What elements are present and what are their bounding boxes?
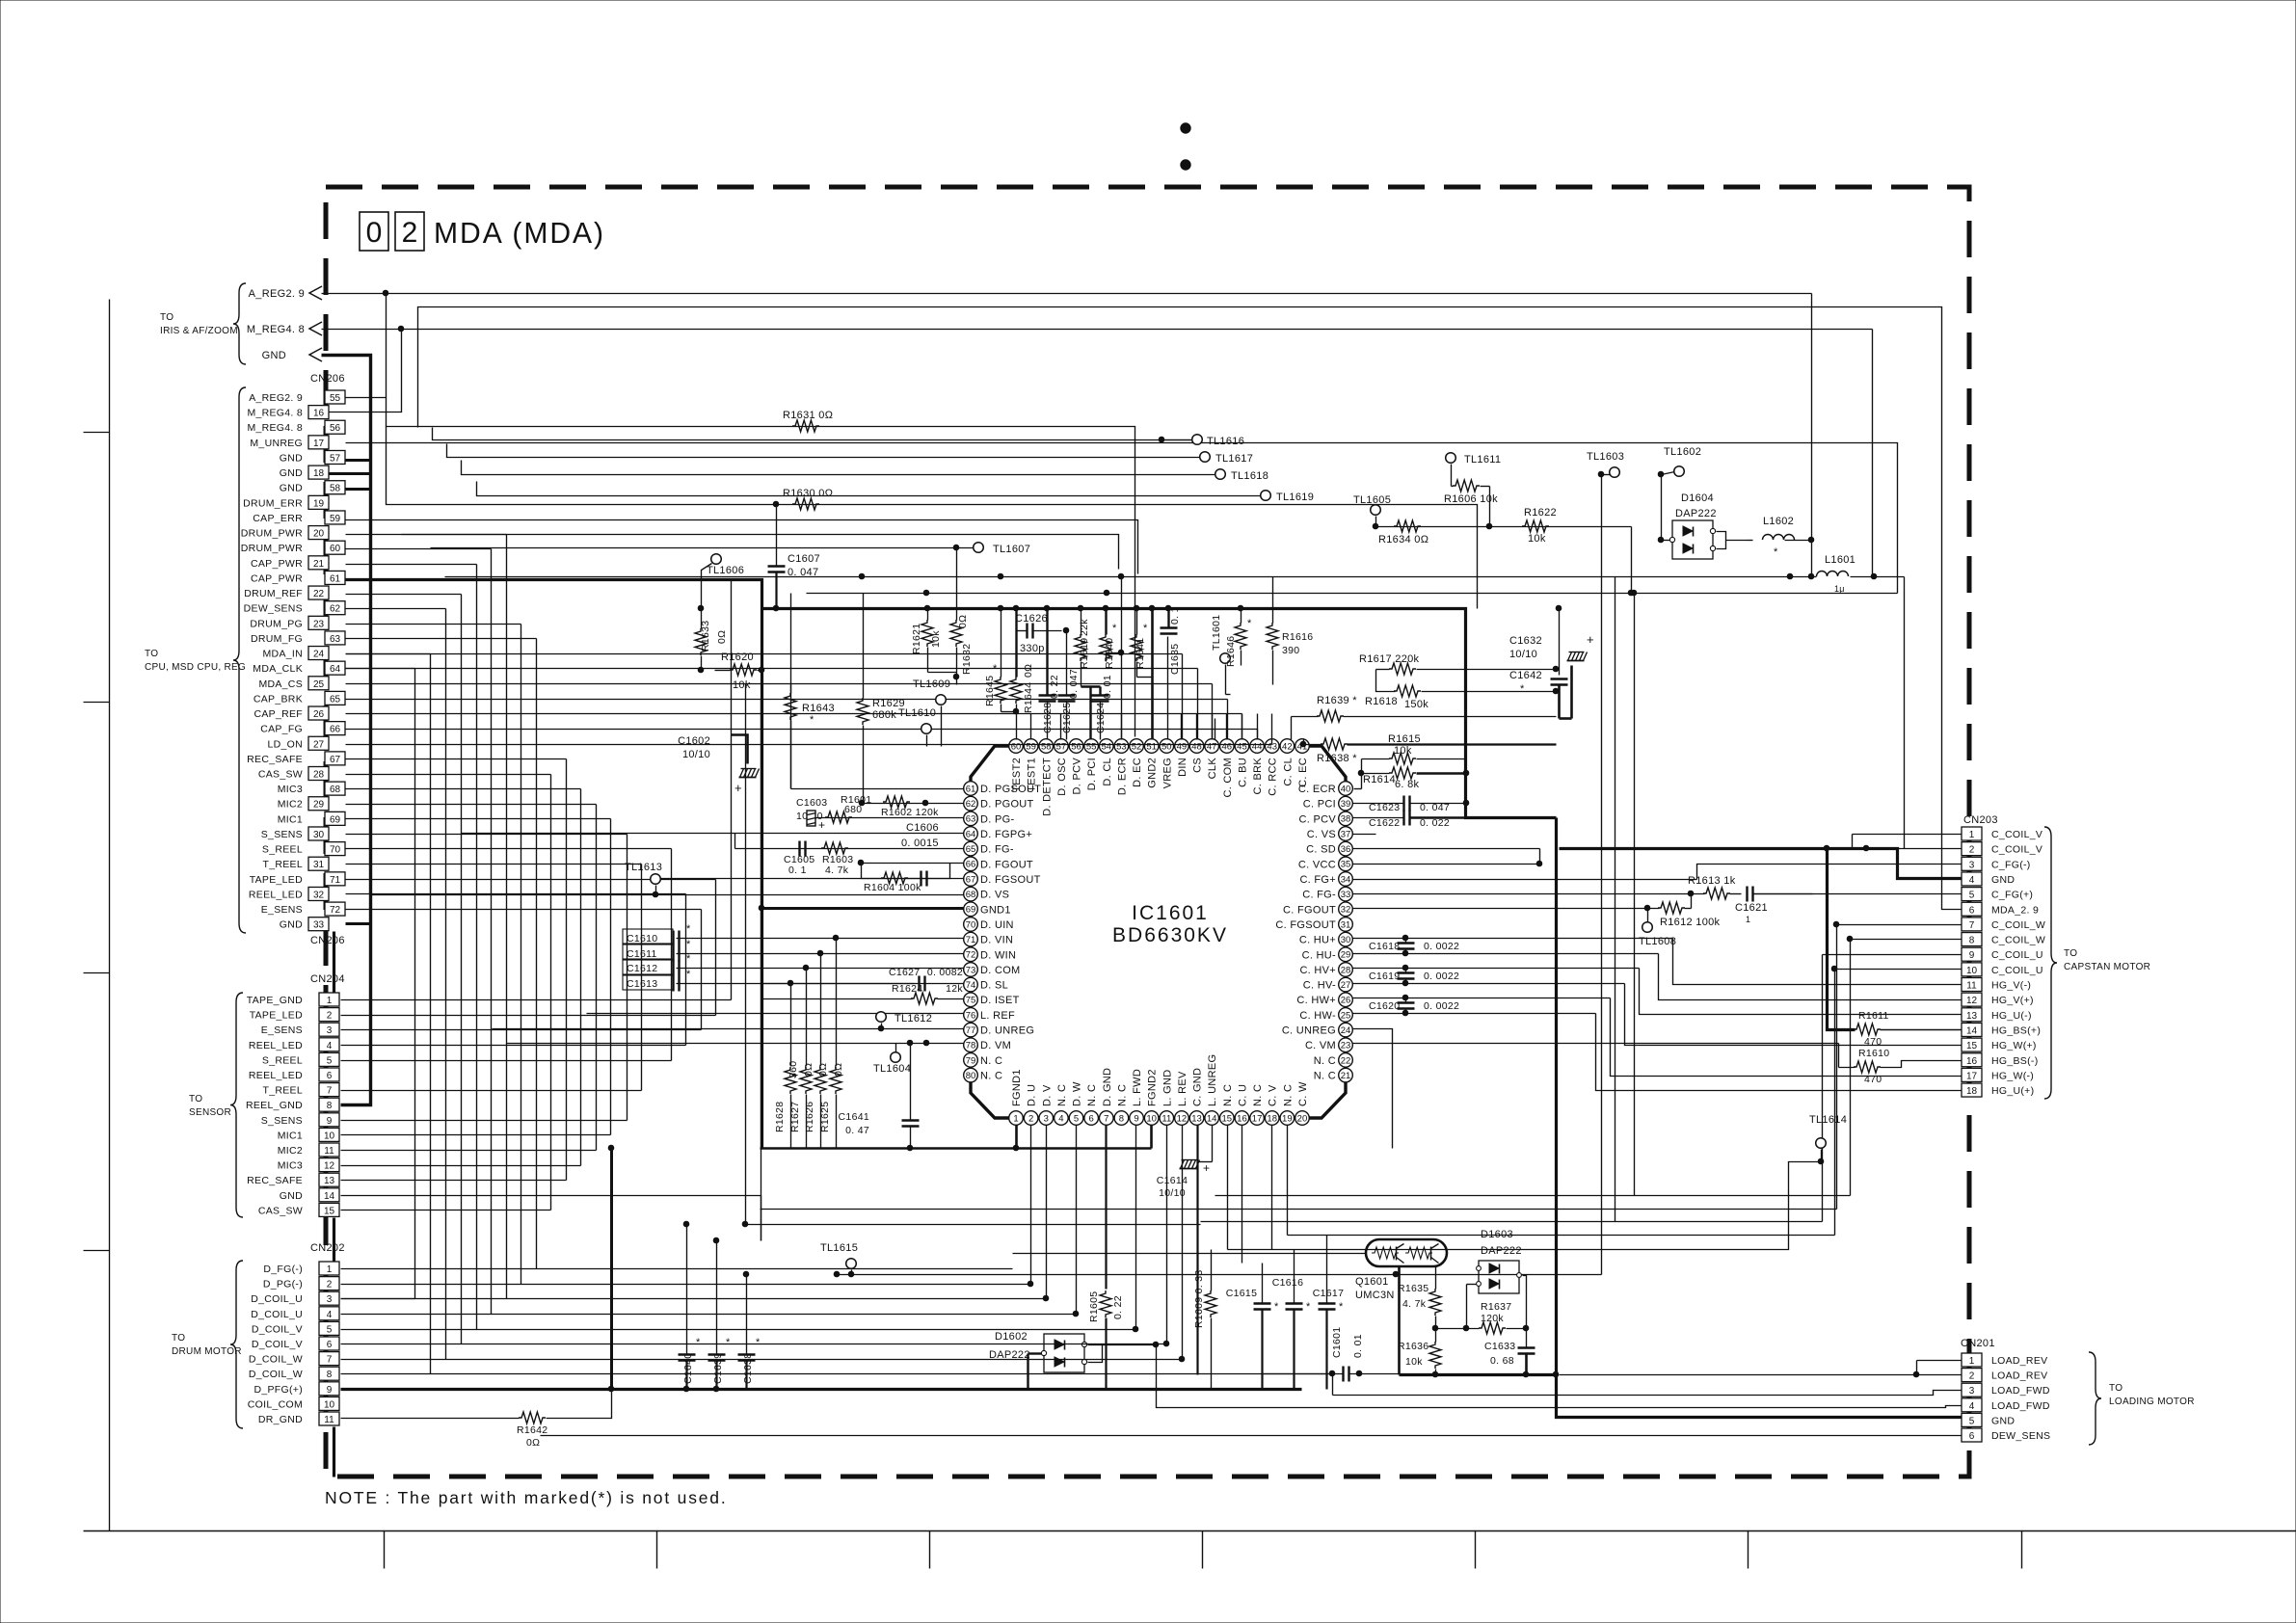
svg-text:R1604 100k: R1604 100k: [864, 882, 921, 893]
resistor R1616: [1267, 577, 1313, 685]
wire CN201 pin2 thin: [1560, 1374, 1962, 1376]
svg-text:D. PGOUT: D. PGOUT: [980, 799, 1034, 811]
svg-text:C1633: C1633: [1484, 1341, 1515, 1352]
wire rail R1630 net: [387, 427, 1478, 609]
svg-text:27: 27: [313, 739, 325, 750]
svg-text:11: 11: [324, 1415, 334, 1425]
svg-text:C. HV+: C. HV+: [1299, 965, 1336, 976]
svg-text:S_REEL: S_REEL: [262, 1054, 303, 1066]
svg-text:CN203: CN203: [1963, 814, 1998, 826]
svg-text:C1639: C1639: [712, 1353, 724, 1384]
svg-text:TL1613: TL1613: [625, 862, 662, 873]
wire R1625-28 verticals to FGND bus: [791, 939, 837, 1149]
svg-text:C1624: C1624: [1095, 703, 1107, 733]
svg-text:11: 11: [1966, 981, 1977, 992]
svg-text:0. 0022: 0. 0022: [1424, 941, 1459, 952]
capacitor C1614 with ground: [1157, 1157, 1213, 1200]
svg-text:LOAD_REV: LOAD_REV: [1991, 1370, 2047, 1382]
wire connector spines thick: [333, 932, 335, 1477]
test point TL1613: [625, 862, 662, 895]
svg-text:DRUM_PWR: DRUM_PWR: [241, 543, 303, 554]
connector CN201: [1961, 1338, 2050, 1442]
svg-text:4: 4: [1058, 1113, 1063, 1124]
svg-text:8: 8: [1119, 1113, 1124, 1124]
svg-text:10/10: 10/10: [1159, 1187, 1186, 1199]
svg-text:CAP_BRK: CAP_BRK: [254, 693, 303, 705]
svg-text:0. 22: 0. 22: [1112, 1295, 1124, 1319]
wire lower staircase rails: [341, 1000, 761, 1241]
svg-text:470: 470: [1864, 1074, 1882, 1085]
capacitor C1610: [623, 923, 691, 946]
IC1601 left pins 61-80 with names: [964, 782, 1042, 1082]
svg-text:SENSOR: SENSOR: [189, 1107, 231, 1118]
svg-text:*: *: [686, 939, 691, 950]
svg-text:23: 23: [313, 619, 325, 629]
brace TO SENSOR: [189, 993, 243, 1217]
svg-text:18: 18: [1966, 1086, 1978, 1097]
capacitor C1601: [1264, 1327, 1400, 1396]
svg-text:IRIS & AF/ZOOM: IRIS & AF/ZOOM: [160, 326, 238, 336]
svg-text:DRUM_PG: DRUM_PG: [250, 618, 303, 629]
svg-text:HG_U(+): HG_U(+): [1991, 1085, 2034, 1097]
wire thick GND1 into IC pin 69: [759, 905, 964, 911]
svg-text:CN201: CN201: [1961, 1338, 1995, 1349]
svg-text:+: +: [1203, 1161, 1210, 1175]
svg-text:BD6630KV: BD6630KV: [1112, 924, 1228, 946]
svg-text:8: 8: [327, 1370, 333, 1380]
svg-text:66: 66: [966, 860, 976, 870]
svg-text:0Ω: 0Ω: [817, 1063, 829, 1077]
wire CN203 pin1 feed: [1853, 835, 1962, 849]
svg-text:1: 1: [327, 996, 333, 1006]
svg-text:21: 21: [1341, 1071, 1351, 1081]
svg-text:C1628: C1628: [1042, 703, 1054, 733]
svg-text:C. VS: C. VS: [1307, 829, 1336, 840]
svg-text:D. V: D. V: [1041, 1084, 1053, 1106]
resistor R1602: [881, 796, 939, 818]
svg-text:C1610: C1610: [627, 933, 657, 945]
wire rail M_REG4.8 upper loop: [418, 307, 1962, 910]
capacitor C1633: [1484, 1329, 1535, 1377]
capacitor C1602 electrolytic: [678, 735, 759, 796]
svg-text:R1646: R1646: [1225, 636, 1237, 667]
svg-text:CLK: CLK: [1207, 758, 1218, 780]
resistor R1637 value: [0, 0, 1, 1]
resistor R1613: [1688, 875, 1736, 899]
resistor R1621: [911, 605, 942, 672]
wire D.VM row: [507, 1040, 965, 1046]
svg-text:3: 3: [1044, 1113, 1049, 1124]
svg-text:0. 047: 0. 047: [1068, 669, 1080, 699]
svg-text:D_PG(-): D_PG(-): [263, 1279, 303, 1290]
svg-text:58: 58: [1041, 741, 1052, 752]
svg-text:TL1602: TL1602: [1664, 446, 1701, 458]
svg-text:18: 18: [313, 468, 325, 479]
svg-text:LD_ON: LD_ON: [267, 738, 303, 750]
svg-text:77: 77: [966, 1025, 976, 1036]
svg-text:57: 57: [1056, 741, 1067, 752]
svg-text:6: 6: [327, 1340, 333, 1350]
resistor R1603: [821, 842, 853, 876]
svg-text:C_COIL_U: C_COIL_U: [1991, 949, 2043, 961]
svg-text:C. UNREG: C. UNREG: [1282, 1025, 1336, 1037]
svg-text:TL1618: TL1618: [1231, 470, 1268, 482]
svg-text:63: 63: [966, 814, 976, 825]
svg-text:D_COIL_V: D_COIL_V: [252, 1323, 303, 1335]
wire D.SL row: [762, 983, 915, 985]
svg-text:C. GND: C. GND: [1192, 1068, 1204, 1106]
svg-text:L. REF: L. REF: [980, 1010, 1015, 1022]
resistor R1610: [1456, 1044, 1962, 1086]
svg-text:LOAD_REV: LOAD_REV: [1991, 1355, 2047, 1367]
svg-text:66: 66: [330, 725, 341, 735]
svg-text:31: 31: [313, 860, 325, 870]
svg-text:76: 76: [966, 1010, 976, 1021]
svg-text:2: 2: [327, 1280, 333, 1290]
svg-text:56: 56: [1071, 741, 1081, 752]
svg-text:D. FG-: D. FG-: [980, 844, 1014, 856]
svg-text:TL1615: TL1615: [820, 1242, 858, 1254]
svg-text:6: 6: [1969, 905, 1975, 916]
diode D1602 DAP222 dual: [989, 1331, 1159, 1390]
svg-text:24: 24: [1341, 1025, 1351, 1036]
svg-text:*: *: [726, 1337, 731, 1348]
svg-text:7: 7: [327, 1355, 333, 1366]
resistor R1637: [1436, 1301, 1529, 1334]
svg-text:68: 68: [330, 785, 341, 795]
capacitor C1603 electrolytic: [796, 797, 827, 832]
resistor R1642: [341, 1412, 548, 1449]
svg-text:HG_BS(-): HG_BS(-): [1991, 1055, 2039, 1067]
svg-text:TAPE_LED: TAPE_LED: [250, 874, 303, 886]
wire rail to TL1617: [447, 444, 1200, 458]
wire D.FGOUT row: [858, 860, 964, 865]
svg-text:7: 7: [1969, 920, 1975, 931]
svg-text:16: 16: [1966, 1056, 1978, 1067]
svg-text:2: 2: [1969, 845, 1975, 856]
svg-text:R1612 100k: R1612 100k: [1660, 917, 1721, 928]
test point TL1614: [1809, 1114, 1847, 1164]
svg-text:26: 26: [1341, 996, 1351, 1006]
svg-text:74: 74: [966, 980, 976, 991]
svg-text:R1611: R1611: [1858, 1010, 1889, 1022]
wire D.FGSOUT loop: [862, 864, 950, 879]
svg-text:R1633: R1633: [700, 621, 711, 652]
resistor R1619: [1075, 605, 1090, 686]
svg-text:TAPE_LED: TAPE_LED: [250, 1010, 303, 1022]
svg-text:1: 1: [1746, 915, 1750, 924]
svg-text:D. VM: D. VM: [980, 1040, 1011, 1051]
svg-text:0. 0082: 0. 0082: [927, 967, 963, 978]
svg-text:63: 63: [330, 634, 341, 645]
svg-text:C1602: C1602: [678, 735, 710, 747]
diode D1603 DAP222 dual: [1467, 1229, 1527, 1329]
svg-text:R1627: R1627: [789, 1102, 801, 1132]
svg-text:22: 22: [313, 589, 325, 599]
test point TL1604: [873, 1044, 911, 1076]
test point TL1616: [1159, 435, 1244, 447]
capacitor C1622: [1353, 811, 1467, 830]
wire C.HU rows: [1353, 939, 1673, 954]
resistor R1646: [1225, 605, 1252, 667]
svg-text:37: 37: [1341, 829, 1351, 839]
resistor R1609 vertical: [1193, 1250, 1216, 1390]
svg-text:3: 3: [327, 1294, 333, 1305]
wire thick capstan GND elbow: [1881, 1029, 1962, 1031]
svg-text:0. 0022: 0. 0022: [1424, 971, 1459, 982]
wire right long horizontals lower: [1201, 1196, 1851, 1222]
svg-text:C1638: C1638: [742, 1353, 754, 1384]
resistor R1639: [1292, 695, 1557, 740]
svg-text:57: 57: [330, 453, 341, 464]
svg-text:60: 60: [330, 544, 341, 554]
svg-text:MIC2: MIC2: [278, 1145, 303, 1157]
resistor R1627: [789, 1063, 814, 1132]
svg-text:*: *: [1339, 1301, 1344, 1313]
svg-text:5: 5: [327, 1324, 333, 1335]
svg-text:MIC1: MIC1: [278, 813, 303, 825]
svg-text:12: 12: [324, 1161, 335, 1172]
resistor R1629: [857, 594, 905, 804]
svg-text:78: 78: [966, 1041, 976, 1051]
svg-text:TL1617: TL1617: [1215, 453, 1253, 465]
svg-text:5: 5: [1969, 891, 1975, 901]
svg-text:C1625: C1625: [1061, 703, 1073, 733]
svg-text:C_COIL_V: C_COIL_V: [1991, 844, 2042, 856]
connector CN202: [248, 1242, 345, 1425]
wire CN201 pin3 rail: [1333, 1391, 1962, 1396]
svg-text:TO: TO: [2109, 1383, 2122, 1394]
svg-text:L. UNREG: L. UNREG: [1207, 1054, 1218, 1106]
svg-text:53: 53: [1116, 741, 1127, 752]
capacitor C1623: [1353, 796, 1469, 814]
brace TO CAPSTAN MOTOR: [2044, 827, 2150, 1099]
svg-text:R1645: R1645: [984, 676, 996, 706]
svg-text:45: 45: [1237, 741, 1247, 752]
svg-text:10: 10: [1146, 1113, 1157, 1124]
svg-text:DEW_SENS: DEW_SENS: [244, 603, 303, 615]
wire CN203 pin3 feed: [0, 0, 2, 2]
svg-text:MIC2: MIC2: [278, 799, 303, 811]
svg-text:R1632: R1632: [961, 644, 973, 675]
resistor R1633: [695, 605, 728, 673]
svg-text:D_COIL_V: D_COIL_V: [252, 1339, 303, 1350]
svg-text:D. W: D. W: [1072, 1081, 1083, 1106]
svg-text:4: 4: [327, 1041, 333, 1051]
svg-text:120k: 120k: [1481, 1313, 1504, 1324]
svg-text:0. 68: 0. 68: [1490, 1355, 1514, 1367]
svg-text:0Ω: 0Ω: [716, 630, 728, 644]
svg-text:*: *: [1247, 618, 1252, 629]
svg-text:GND: GND: [280, 452, 303, 464]
svg-text:T_REEL: T_REEL: [263, 1085, 303, 1097]
svg-text:R1614: R1614: [1363, 774, 1396, 785]
svg-text:M_REG4. 8: M_REG4. 8: [247, 324, 305, 335]
svg-text:0. 0015: 0. 0015: [901, 838, 939, 849]
svg-text:TL1614: TL1614: [1809, 1114, 1847, 1126]
svg-text:13: 13: [1191, 1113, 1202, 1124]
capacitor C1618: [1369, 935, 1459, 956]
svg-text:C_COIL_V: C_COIL_V: [1991, 829, 2042, 840]
wire C.FG+ to CN203 staircase: [1697, 865, 1962, 880]
svg-text:6: 6: [1089, 1113, 1094, 1124]
wire HG_W- HG_U+ rows: [0, 0, 1, 1]
svg-text:10k: 10k: [733, 679, 751, 691]
svg-text:*: *: [1274, 1301, 1279, 1313]
svg-text:11: 11: [324, 1146, 334, 1157]
wire C.VM row: [1353, 1043, 1456, 1045]
svg-text:C. PCI: C. PCI: [1303, 799, 1336, 811]
svg-text:MDA_IN: MDA_IN: [263, 649, 303, 660]
test point TL1619: [1261, 491, 1314, 503]
svg-text:TL1611: TL1611: [1464, 454, 1501, 466]
svg-text:D. VIN: D. VIN: [980, 935, 1013, 946]
wire L.REF row: [587, 1013, 965, 1015]
wire D.PG- row: [816, 817, 965, 819]
svg-text:D. PCI: D. PCI: [1086, 758, 1098, 790]
svg-text:8: 8: [327, 1101, 333, 1111]
resistor R1628: [774, 1061, 799, 1132]
svg-text:LOAD_FWD: LOAD_FWD: [1991, 1385, 2050, 1397]
svg-text:C. W: C. W: [1297, 1081, 1309, 1106]
wire CN201 pin4 rail: [1157, 1345, 1962, 1408]
svg-text:4: 4: [1969, 1401, 1975, 1412]
wire C.W C.V C.U staircases to right: [0, 0, 1, 1]
svg-text:C1611: C1611: [627, 948, 657, 960]
svg-text:10k: 10k: [1405, 1356, 1423, 1368]
svg-text:D. OSC: D. OSC: [1056, 758, 1068, 796]
svg-text:69: 69: [966, 905, 976, 916]
svg-text:75: 75: [966, 996, 976, 1006]
svg-text:+: +: [818, 818, 825, 832]
svg-text:MDA_2. 9: MDA_2. 9: [1991, 904, 2039, 916]
wire C.FGOUT row with R1612: [1353, 894, 1692, 911]
svg-text:R1610: R1610: [1858, 1048, 1889, 1059]
svg-text:9: 9: [1134, 1113, 1138, 1124]
svg-text:6: 6: [327, 1071, 333, 1081]
wire D.PGOUT row: [859, 800, 964, 806]
svg-text:E_SENS: E_SENS: [261, 1024, 303, 1036]
svg-text:19: 19: [1282, 1113, 1293, 1124]
wire right area long verticals: [1615, 577, 1635, 1222]
svg-text:TL1609: TL1609: [913, 678, 950, 690]
svg-text:79: 79: [966, 1055, 976, 1066]
wire thick bus to CN203 GND pin4: [1560, 849, 1962, 879]
test point TL1605: [1353, 494, 1391, 529]
svg-text:C1606: C1606: [906, 822, 939, 834]
svg-text:4: 4: [1969, 875, 1975, 886]
svg-text:C1621: C1621: [1735, 902, 1768, 914]
resistor R1631: [783, 410, 833, 432]
svg-text:27: 27: [1341, 980, 1351, 991]
svg-text:13: 13: [1966, 1011, 1978, 1022]
svg-text:*: *: [1112, 623, 1117, 634]
svg-text:59: 59: [330, 514, 341, 524]
svg-text:HG_W(+): HG_W(+): [1991, 1040, 2037, 1051]
svg-text:C. HW+: C. HW+: [1296, 995, 1336, 1006]
wire CN203 pin5 feed: [1753, 893, 1962, 895]
capacitor C1606: [901, 822, 939, 887]
svg-text:C_FG(-): C_FG(-): [1991, 859, 2031, 870]
svg-text:C. BU: C. BU: [1237, 758, 1248, 787]
svg-text:8: 8: [1969, 936, 1975, 946]
svg-text:33: 33: [1341, 890, 1351, 900]
svg-text:68: 68: [966, 890, 976, 900]
connector CN203: [1962, 814, 2045, 1097]
capacitor C1607: [768, 505, 820, 611]
wire loading motor feeds: [1913, 1361, 1962, 1377]
svg-text:0: 0: [366, 217, 383, 249]
svg-text:D. VS: D. VS: [980, 890, 1009, 901]
svg-text:29: 29: [313, 800, 325, 811]
svg-text:46: 46: [1222, 741, 1233, 752]
svg-text:C. ECR: C. ECR: [1298, 784, 1336, 795]
svg-text:C1616: C1616: [1272, 1277, 1303, 1289]
svg-text:MIC3: MIC3: [278, 784, 303, 795]
resistor R1604: [864, 872, 921, 893]
svg-text:A_REG2. 9: A_REG2. 9: [249, 288, 305, 300]
svg-text:10k: 10k: [1528, 533, 1546, 545]
svg-text:S_SENS: S_SENS: [261, 829, 303, 840]
svg-text:HG_U(-): HG_U(-): [1991, 1010, 2032, 1022]
svg-text:TO: TO: [2064, 948, 2077, 959]
test point TL1617: [1200, 452, 1253, 465]
capacitor C1627: [889, 967, 963, 992]
svg-text:25: 25: [1341, 1010, 1351, 1021]
svg-text:51: 51: [1146, 741, 1157, 752]
svg-text:CAS_SW: CAS_SW: [258, 1205, 303, 1216]
svg-text:TL1608: TL1608: [1639, 936, 1676, 947]
wire CN203 C_FG(-) feed: [0, 0, 1, 1]
wire Q1601 emitter thick: [1398, 1267, 1401, 1375]
wire C.SD row: [1353, 848, 1540, 850]
svg-text:1: 1: [1013, 1113, 1018, 1124]
svg-text:GND: GND: [1991, 1415, 2015, 1426]
svg-text:M_UNREG: M_UNREG: [250, 438, 303, 449]
svg-text:R1624: R1624: [892, 983, 922, 995]
title block 02 MDA (MDA): [360, 212, 605, 251]
svg-text:D. FGSOUT: D. FGSOUT: [980, 874, 1041, 886]
resistor R1638: [1300, 738, 1556, 764]
svg-text:C. PCV: C. PCV: [1299, 813, 1337, 825]
test point TL1612: [876, 1012, 932, 1029]
resistor R1632: [950, 548, 973, 678]
resistor R1634: [1378, 520, 1428, 545]
wire R1634 R1622 net: [1376, 527, 1634, 596]
capacitor C1611: [623, 939, 691, 962]
wire HG staircases to CN203: [1596, 939, 1962, 1091]
svg-text:CAP_ERR: CAP_ERR: [253, 513, 303, 524]
svg-text:D. DETECT: D. DETECT: [1041, 758, 1053, 816]
svg-text:R1626: R1626: [804, 1102, 815, 1132]
svg-text:TAPE_GND: TAPE_GND: [247, 995, 303, 1006]
wire rail M_UNREG: [346, 443, 1898, 594]
svg-text:D. UNREG: D. UNREG: [980, 1025, 1034, 1037]
svg-text:C_FG(+): C_FG(+): [1991, 890, 2033, 901]
svg-text:39: 39: [1341, 799, 1351, 810]
resistor R1630: [783, 488, 833, 510]
resistor R1605 vertical: [1088, 1290, 1124, 1390]
svg-text:26: 26: [313, 709, 325, 720]
svg-text:680: 680: [844, 804, 862, 815]
svg-text:330p: 330p: [1020, 643, 1045, 654]
svg-text:71: 71: [966, 935, 976, 945]
wire lower-left long rails: [0, 0, 1, 1]
svg-text:42: 42: [1282, 741, 1293, 752]
wire C.FG- to CN203: [1812, 893, 1814, 895]
resistor R1611 with label: [1854, 1010, 1889, 1048]
svg-text:LOAD_FWD: LOAD_FWD: [1991, 1400, 2050, 1412]
